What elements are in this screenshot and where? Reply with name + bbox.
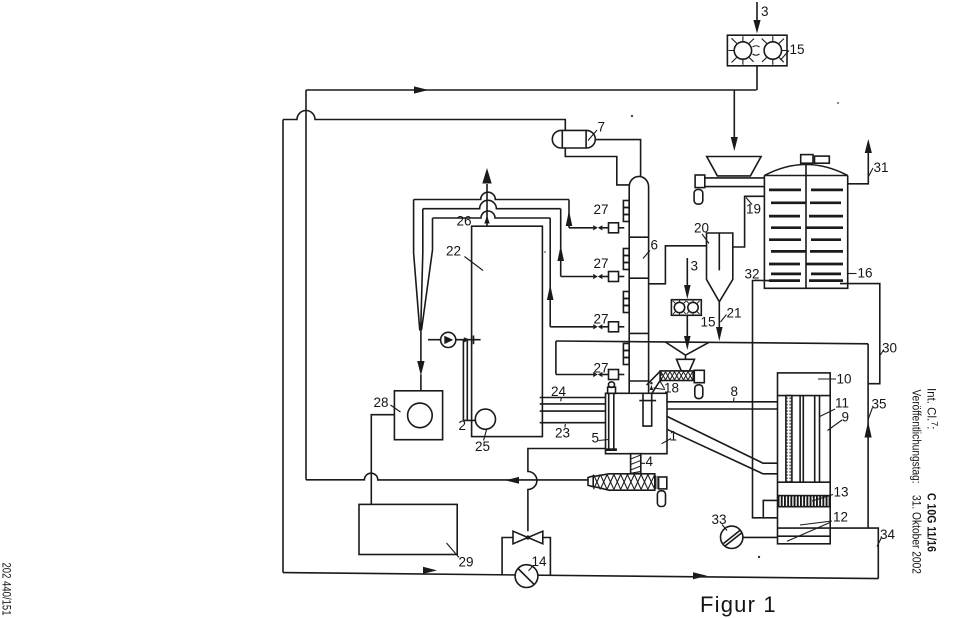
label 28 xyxy=(374,395,401,412)
crusher 15 (roller crusher, top) xyxy=(727,35,787,66)
tank 16 (settler with trays) xyxy=(764,155,847,289)
tank 16 trays xyxy=(769,190,843,281)
svg-text:29: 29 xyxy=(459,555,474,570)
svg-text:15: 15 xyxy=(701,315,716,330)
svg-text:28: 28 xyxy=(374,395,389,410)
pump 2 line with pump symbol xyxy=(428,332,481,347)
wire: left inner loop vertical xyxy=(305,90,307,480)
svg-text:21: 21 xyxy=(727,306,742,321)
wire: solids return line with left arrow (hops box28-29 line) xyxy=(306,473,588,484)
svg-text:12: 12 xyxy=(833,510,848,525)
wire: cyclone inlet from column 6 xyxy=(649,246,707,284)
label 6 xyxy=(643,238,658,259)
small funnel into screw 18 xyxy=(677,359,695,371)
tank 22 (slurry tank) xyxy=(472,226,543,436)
wire: long bottom line xyxy=(283,567,878,580)
wire: long cross line to right side xyxy=(556,341,868,344)
filter header line xyxy=(778,395,831,397)
svg-text:25: 25 xyxy=(475,439,490,454)
label 25 xyxy=(475,430,490,454)
wire: box 28 to box 29 xyxy=(371,415,394,505)
svg-text:30: 30 xyxy=(882,341,897,356)
label 10 xyxy=(818,372,852,387)
diagonal pipe vessel 1 to filter 9 xyxy=(667,416,778,473)
feed arrow 3 into crusher 15 (middle) xyxy=(684,258,691,299)
label 15 xyxy=(781,42,805,60)
wire: offgas line 31 with up arrow xyxy=(848,139,872,184)
label 35 xyxy=(868,397,886,420)
svg-text:19: 19 xyxy=(746,202,761,217)
funnel 19 under top arrow xyxy=(707,157,761,176)
standpipe 5 xyxy=(606,382,617,451)
label 22 xyxy=(446,244,483,271)
svg-text:24: 24 xyxy=(551,384,567,399)
svg-text:31. Oktober 2002: 31. Oktober 2002 xyxy=(910,495,922,574)
vessel 1 (reactor sump) xyxy=(606,393,668,453)
svg-text:32: 32 xyxy=(745,267,760,282)
svg-text:34: 34 xyxy=(880,527,896,542)
pump 14 (circle on bottom line) xyxy=(515,565,538,588)
label 7 xyxy=(588,120,605,141)
wire: converging return lines to box 28 xyxy=(414,200,433,331)
label 18 xyxy=(654,381,680,396)
svg-text:33: 33 xyxy=(712,512,727,527)
label 32 xyxy=(745,267,775,282)
wire: cyclone dipleg with arrow 21 xyxy=(716,302,723,341)
valve 14 (control valve) xyxy=(513,531,543,544)
svg-text:35: 35 xyxy=(872,397,887,412)
filter vessel 9 outer shell xyxy=(778,373,831,544)
label 30 xyxy=(880,341,897,356)
feed line 27b with valve and box xyxy=(561,272,625,282)
wire: top recycle line to crusher xyxy=(306,86,757,93)
wire: left outer loop vertical xyxy=(282,120,284,573)
label 8 xyxy=(731,384,739,401)
svg-text:15: 15 xyxy=(790,42,805,57)
rotary chute 4 below vessel 1 xyxy=(631,454,641,474)
svg-text:20: 20 xyxy=(694,221,709,236)
margin text right column xyxy=(910,388,940,574)
svg-text:31: 31 xyxy=(874,160,889,175)
label 11 xyxy=(820,396,850,417)
label 16 xyxy=(848,266,873,281)
pump 33 xyxy=(721,526,743,548)
svg-text:13: 13 xyxy=(834,485,849,500)
svg-text:27: 27 xyxy=(594,312,609,327)
wire: line 19 from tank to cyclone xyxy=(733,196,765,247)
svg-text:10: 10 xyxy=(837,372,852,387)
duct from funnel 19 into tank 16 xyxy=(694,175,764,204)
svg-text:3: 3 xyxy=(761,4,769,19)
wire: line 35 with up arrow xyxy=(865,344,872,528)
svg-text:11: 11 xyxy=(835,396,849,411)
svg-text:18: 18 xyxy=(664,381,679,396)
wire: pipe 32 from tank 16 down to filter xyxy=(753,281,778,518)
wire: line 30 from tank bottom xyxy=(840,284,880,384)
wire: return line B (hops vent line) xyxy=(423,200,561,208)
vessel 7 (horizontal drum) xyxy=(552,130,595,148)
column 6 nozzle banks xyxy=(623,201,629,365)
label 14 xyxy=(529,554,548,571)
wire: riser of feed 27b with up arrow xyxy=(557,209,564,277)
screw feeder 18 above vessel 1 xyxy=(660,370,704,398)
wire: crusher outlet down xyxy=(756,66,758,90)
wire: filter drain stub xyxy=(763,500,777,517)
pipes 24 between tank 22 and vessel 1 xyxy=(540,398,606,404)
wire: crusher outlet arrow into funnel xyxy=(684,315,691,350)
label 5 xyxy=(592,431,609,446)
pipe 8 from vessel 1 to filter 9 xyxy=(667,402,778,409)
wire: pump 33 to filter xyxy=(743,536,778,538)
wire: branch down into funnel 19 xyxy=(731,90,738,151)
label 13 xyxy=(812,485,849,502)
svg-text:5: 5 xyxy=(592,431,600,446)
label 31 xyxy=(869,160,889,177)
label 24 xyxy=(551,384,567,401)
pipes 23 between tank 22 and vessel 1 xyxy=(540,411,606,423)
svg-text:Veröffentlichungstag:: Veröffentlichungstag: xyxy=(910,390,922,484)
feed line 27a with valve and box xyxy=(569,223,624,233)
svg-text:4: 4 xyxy=(646,454,654,469)
wire: down pipe to circulation pump 25 xyxy=(463,340,475,421)
wire: drum 7 to column 6 top xyxy=(595,140,640,177)
svg-text:6: 6 xyxy=(651,238,659,253)
pump 25 (circle in tank 22) xyxy=(475,409,495,429)
wire: return line A (hops vent line) xyxy=(414,192,569,199)
label 4 xyxy=(641,454,654,469)
svg-text:23: 23 xyxy=(555,426,570,441)
wire: converged line with down arrow into box 28 xyxy=(417,330,424,391)
label 33 xyxy=(712,512,728,531)
wire: second top line to vessel 7 (hops over inner vertical) xyxy=(283,111,565,131)
node: feed arrow 3 into crusher 15 xyxy=(753,2,760,34)
svg-text:7: 7 xyxy=(598,120,606,135)
svg-text:Figur 1: Figur 1 xyxy=(700,592,777,617)
svg-text:9: 9 xyxy=(842,410,850,425)
svg-text:Int. Cl.7:: Int. Cl.7: xyxy=(925,388,940,429)
column 6 (riser reactor) xyxy=(629,176,648,393)
label 12 xyxy=(787,510,848,542)
dip tube of column 6 in vessel 1 xyxy=(639,393,656,426)
label 19 xyxy=(746,198,761,217)
feed line 27c with valve and box xyxy=(550,322,624,332)
svg-text:27: 27 xyxy=(594,361,609,376)
label 23 xyxy=(555,424,570,441)
direction ticks at screw 18 xyxy=(650,374,663,391)
feed line 27d with valve and box xyxy=(556,370,624,380)
wire: drum 7 bottom line to column 6 xyxy=(565,148,629,185)
label 34 xyxy=(877,527,896,547)
label 9 xyxy=(828,410,850,431)
wire: riser of feed 27a with up arrow xyxy=(566,200,573,228)
filter candle tubes 11 xyxy=(778,396,831,483)
screw conveyor 4 xyxy=(588,474,667,507)
svg-text:27: 27 xyxy=(594,256,609,271)
box 29 xyxy=(359,504,457,554)
wire: return line C (hops vent line) xyxy=(433,211,551,218)
box 28 (mixer with circle) xyxy=(394,391,442,440)
label 1 xyxy=(662,429,678,444)
svg-text:C 10G 11/16: C 10G 11/16 xyxy=(925,493,937,552)
label 20 xyxy=(694,221,709,244)
svg-text:26: 26 xyxy=(457,214,472,229)
svg-text:14: 14 xyxy=(532,554,548,569)
svg-text:16: 16 xyxy=(858,266,873,281)
chute from screw 18 into vessel 1 xyxy=(647,371,661,393)
svg-text:3: 3 xyxy=(691,259,699,274)
svg-text:8: 8 xyxy=(731,384,739,399)
wire: riser of feed 27c with up arrow xyxy=(547,218,554,327)
svg-text:27: 27 xyxy=(594,202,609,217)
wire: line 34 from filter to bottom line xyxy=(830,528,878,579)
filter band 13 (packing) xyxy=(778,496,829,507)
svg-text:202 440/151: 202 440/151 xyxy=(0,563,12,616)
svg-text:2: 2 xyxy=(459,418,467,433)
scan specks xyxy=(544,102,839,558)
cyclone 20 xyxy=(707,233,733,302)
crusher 15 (middle, roller crusher) xyxy=(671,300,701,316)
filter lower section lines 12 xyxy=(778,528,831,536)
label 21 xyxy=(721,306,742,323)
wire: loop down to feed 27d xyxy=(555,341,557,375)
svg-text:22: 22 xyxy=(446,244,461,259)
wire: valve bypass legs xyxy=(502,538,550,576)
label 29 xyxy=(447,543,474,570)
wire: standpipe drain to valve 14 (hops return line) xyxy=(528,449,606,532)
funnel V under cross line xyxy=(665,342,708,359)
vent line 26 from tank 22 with arrows xyxy=(482,168,491,226)
